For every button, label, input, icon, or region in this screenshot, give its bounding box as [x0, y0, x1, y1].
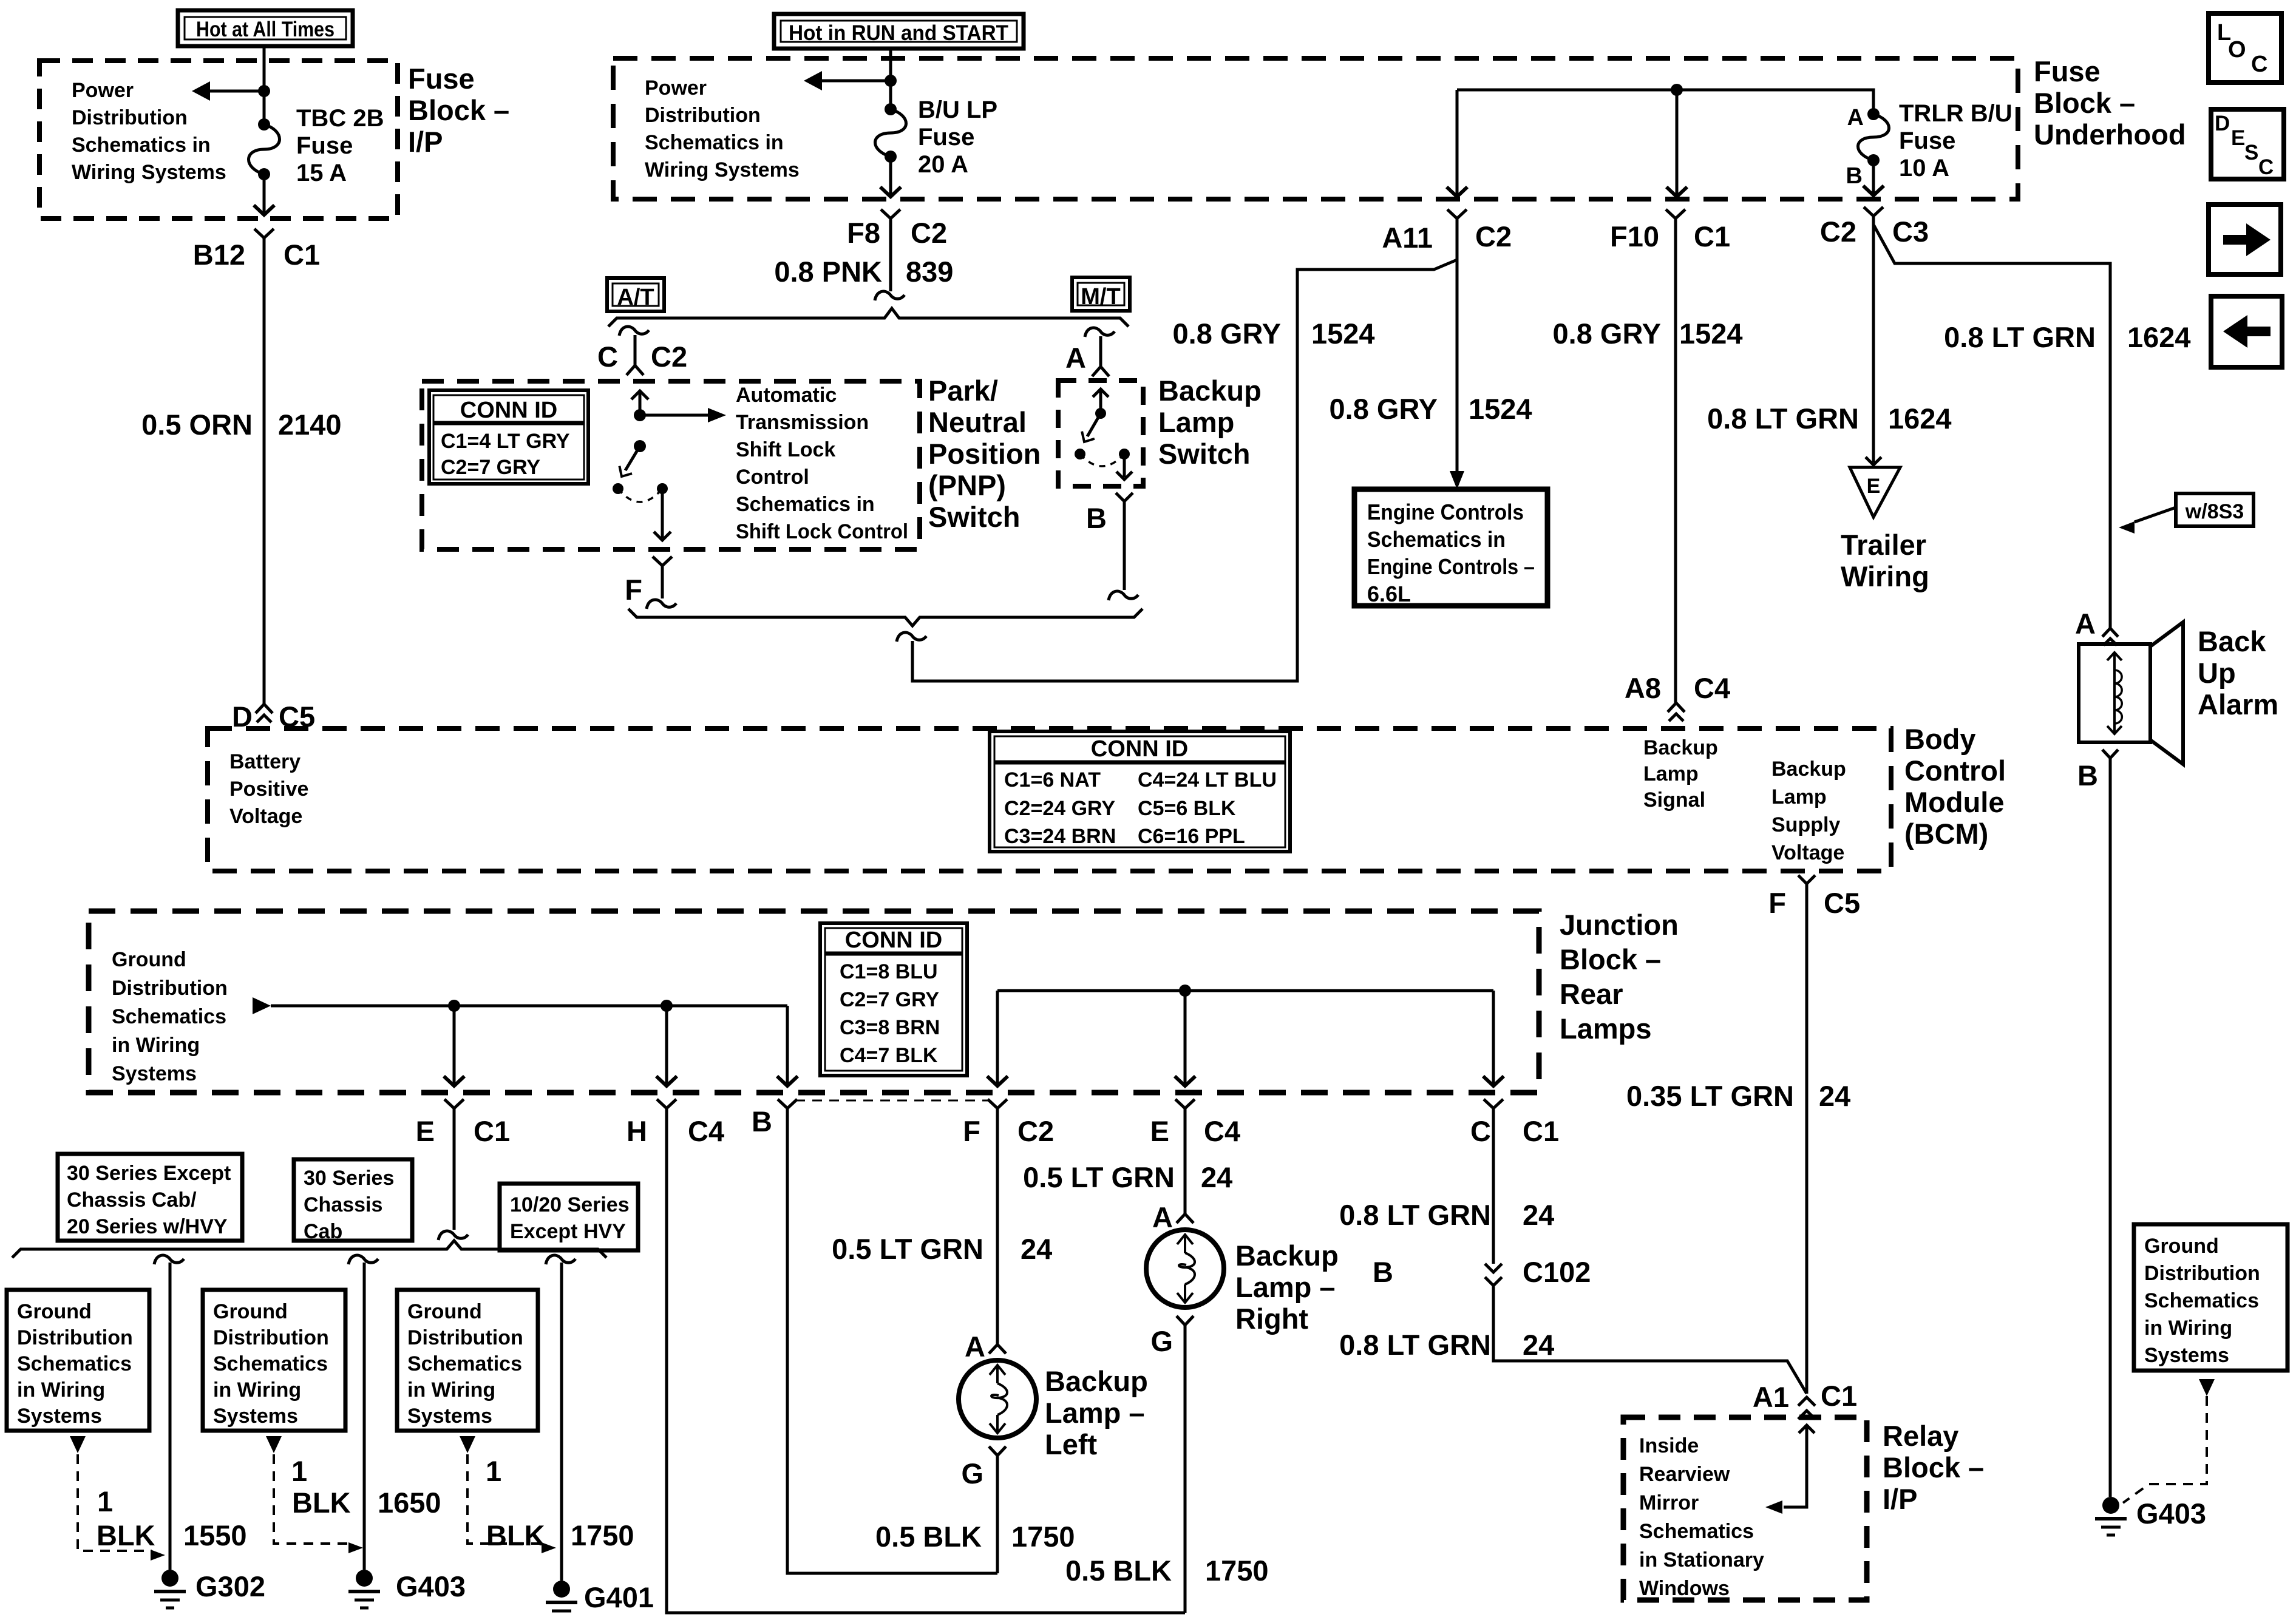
fuse TBC 2B 15A symbol	[258, 118, 270, 131]
svg-text:Systems: Systems	[2144, 1344, 2229, 1367]
svg-text:I/P: I/P	[1883, 1483, 1917, 1515]
svg-text:Back: Back	[2198, 625, 2266, 657]
svg-text:Fuse: Fuse	[1899, 127, 1955, 154]
svg-text:Wiring Systems: Wiring Systems	[72, 161, 226, 184]
back up alarm coil element	[2113, 654, 2116, 732]
connector F8/C2	[881, 209, 900, 219]
harness hook on M/T branch	[1085, 328, 1115, 337]
ground distribution reference box B	[203, 1290, 345, 1431]
svg-text:Neutral: Neutral	[928, 406, 1027, 438]
ground wire hook (G403 mid)	[348, 1255, 378, 1264]
wire E/C1 to ground splice	[453, 1108, 456, 1230]
svg-text:Rear: Rear	[1560, 978, 1623, 1010]
next page arrow icon	[2209, 205, 2281, 274]
svg-text:in Stationary: in Stationary	[1639, 1548, 1764, 1571]
connector B (junction)	[778, 1099, 797, 1108]
svg-text:D: D	[2215, 112, 2230, 135]
M/T variant tag box	[1072, 277, 1130, 311]
svg-text:Lamp: Lamp	[1771, 785, 1827, 808]
branch arrow to power distribution (underhood)	[818, 80, 891, 83]
svg-text:Control: Control	[736, 466, 809, 489]
svg-text:1750: 1750	[571, 1519, 634, 1551]
svg-text:C1: C1	[1523, 1115, 1559, 1147]
ground G302	[161, 1570, 178, 1587]
svg-text:G302: G302	[195, 1570, 265, 1602]
ground bus drop to H/C4	[665, 1006, 668, 1083]
connector A11/C2	[1447, 209, 1467, 219]
wire 0.8 GRY 1524 from A11 to engine controls	[1456, 260, 1459, 472]
svg-text:Fuse: Fuse	[918, 124, 974, 151]
svg-text:B: B	[752, 1105, 772, 1137]
svg-text:0.8 GRY: 0.8 GRY	[1330, 393, 1438, 425]
ground wire hook (G401)	[546, 1255, 576, 1264]
svg-text:Lamps: Lamps	[1560, 1012, 1652, 1045]
svg-text:0.8 PNK: 0.8 PNK	[774, 256, 882, 288]
svg-text:Fuse: Fuse	[2034, 55, 2101, 87]
reference pointer triangle A	[70, 1436, 86, 1453]
fuse block internal bus wire	[1457, 90, 1873, 114]
svg-text:C1=8 BLU: C1=8 BLU	[840, 960, 938, 983]
svg-text:Power: Power	[72, 79, 134, 102]
svg-text:1624: 1624	[1888, 402, 1952, 435]
svg-text:1550: 1550	[183, 1519, 247, 1551]
wire 0.35 LT GRN 24 from BCM to relay block	[1805, 884, 1809, 1394]
svg-text:24: 24	[1201, 1161, 1232, 1193]
A/T variant tag box	[607, 278, 664, 311]
svg-text:Backup: Backup	[1045, 1365, 1148, 1397]
svg-text:(PNP): (PNP)	[928, 469, 1006, 501]
svg-text:Fuse: Fuse	[296, 132, 353, 159]
connector E/C1 (junction)	[444, 1099, 464, 1108]
svg-text:Systems: Systems	[112, 1062, 197, 1085]
svg-text:C4: C4	[1694, 672, 1730, 704]
svg-text:Systems: Systems	[17, 1405, 102, 1428]
svg-text:Position: Position	[928, 438, 1041, 470]
relay block dashed outline	[1623, 1417, 1867, 1600]
connector B of back up alarm	[2102, 750, 2118, 758]
connector G of right backup lamp	[1177, 1316, 1194, 1325]
svg-text:Distribution: Distribution	[407, 1326, 523, 1349]
svg-text:Voltage: Voltage	[229, 805, 302, 828]
backup lamp switch throw arc	[1080, 454, 1124, 466]
svg-text:C1=4 LT GRY: C1=4 LT GRY	[441, 430, 570, 453]
svg-text:G403: G403	[396, 1570, 466, 1602]
svg-text:Engine Controls –: Engine Controls –	[1367, 554, 1535, 579]
svg-text:Lamp: Lamp	[1643, 762, 1699, 785]
svg-text:Schematics in: Schematics in	[72, 134, 211, 157]
svg-text:Hot in RUN and START: Hot in RUN and START	[789, 21, 1008, 45]
svg-text:in Wiring: in Wiring	[112, 1034, 200, 1057]
svg-text:Schematics in: Schematics in	[1367, 527, 1506, 552]
svg-text:Positive: Positive	[229, 778, 308, 801]
svg-text:0.8 GRY: 0.8 GRY	[1173, 317, 1282, 350]
svg-text:C102: C102	[1523, 1256, 1591, 1288]
svg-text:C5: C5	[1824, 887, 1860, 919]
DESC page icon	[2211, 109, 2284, 179]
variant box 30 Series Except Chassis Cab / 20 Series w/HVY	[58, 1154, 242, 1241]
svg-text:Body: Body	[1904, 723, 1976, 755]
connector F10/C1	[1666, 209, 1685, 219]
connector A of backup lamp switch	[1099, 336, 1102, 367]
svg-text:C2: C2	[651, 341, 687, 373]
svg-text:C2: C2	[911, 217, 947, 249]
backup lamp switch output to pin B	[1123, 454, 1126, 477]
svg-text:A1: A1	[1753, 1381, 1789, 1413]
svg-text:Supply: Supply	[1771, 813, 1840, 836]
svg-text:w/8S3: w/8S3	[2185, 500, 2244, 523]
svg-text:Schematics in: Schematics in	[736, 493, 875, 516]
connector F/C5 below BCM	[1798, 875, 1815, 884]
svg-text:Schematics: Schematics	[17, 1352, 132, 1375]
svg-text:Backup: Backup	[1158, 375, 1262, 407]
PNP output wire to pin F	[661, 489, 664, 538]
bus junction node at F10 drop	[1671, 84, 1683, 96]
wire 0.8 PNK 839	[889, 219, 892, 291]
svg-text:0.5 LT GRN: 0.5 LT GRN	[832, 1233, 983, 1265]
svg-text:F8: F8	[847, 217, 880, 249]
svg-text:15 A: 15 A	[296, 160, 347, 186]
svg-text:Windows: Windows	[1639, 1577, 1730, 1600]
relay block internal wire with arrows	[1799, 1425, 1815, 1433]
connector B of backup lamp switch	[1116, 493, 1133, 501]
svg-text:1524: 1524	[1469, 393, 1532, 425]
PNP switch throw arc	[618, 489, 662, 502]
svg-text:Junction: Junction	[1560, 909, 1679, 941]
svg-text:Chassis Cab/: Chassis Cab/	[67, 1188, 197, 1212]
ground G403 (right)	[2102, 1497, 2119, 1514]
node junction on feed wire	[258, 85, 270, 97]
svg-text:1624: 1624	[2127, 321, 2191, 353]
svg-text:Distribution: Distribution	[72, 106, 188, 129]
svg-text:10/20 Series: 10/20 Series	[510, 1193, 630, 1216]
svg-text:G: G	[961, 1457, 983, 1490]
svg-text:in Wiring: in Wiring	[213, 1378, 301, 1402]
svg-text:E: E	[1150, 1115, 1169, 1147]
svg-text:Backup: Backup	[1643, 736, 1718, 759]
svg-text:C4: C4	[1204, 1115, 1240, 1147]
connector B12/C1 below fuse block	[254, 229, 274, 238]
CONN ID table for junction block	[820, 923, 967, 1076]
backup lamp switch input pin arrow	[1093, 389, 1109, 397]
trailer wiring destination triangle E	[1850, 467, 1900, 517]
svg-text:A8: A8	[1625, 672, 1661, 704]
power feed label box: Hot at All Times	[178, 10, 353, 46]
wire from Hot in RUN into fuse block	[889, 49, 892, 109]
node junction on RUN feed	[885, 75, 897, 87]
connector C/C1 (junction)	[1484, 1099, 1503, 1108]
svg-text:10 A: 10 A	[1899, 155, 1949, 181]
svg-text:TRLR B/U: TRLR B/U	[1899, 100, 2012, 127]
ground wire 1 BLK 1750	[560, 1263, 563, 1581]
svg-text:CONN ID: CONN ID	[845, 927, 942, 953]
ground wire hook (G302)	[154, 1255, 184, 1264]
svg-text:A/T: A/T	[617, 285, 654, 310]
branch arrow to power distribution	[206, 90, 264, 93]
PNP switch throw contacts	[613, 483, 623, 494]
svg-text:24: 24	[1523, 1199, 1554, 1231]
svg-text:B12: B12	[193, 239, 245, 271]
back up alarm body	[2079, 644, 2150, 742]
ground splice brace	[12, 1241, 606, 1258]
connector A of left backup lamp	[989, 1344, 1006, 1354]
svg-text:I/P: I/P	[408, 126, 443, 158]
svg-text:30 Series: 30 Series	[304, 1167, 394, 1190]
svg-text:G: G	[1150, 1325, 1173, 1357]
svg-text:Park/: Park/	[928, 375, 998, 407]
svg-text:Up: Up	[2198, 657, 2236, 689]
svg-text:20 A: 20 A	[918, 151, 968, 178]
svg-text:Block –: Block –	[1560, 943, 1661, 975]
ground bus node E drop	[448, 1000, 460, 1012]
harness hook below merge brace	[897, 632, 926, 642]
connector F of PNP switch	[653, 557, 672, 566]
svg-text:0.8 LT GRN: 0.8 LT GRN	[1339, 1199, 1491, 1231]
PNP switch dashed outline	[422, 381, 920, 549]
dashed reference path A	[78, 1454, 152, 1551]
lamp bus drop to E/C4	[1184, 991, 1187, 1083]
svg-text:CONN ID: CONN ID	[460, 398, 557, 423]
svg-text:CONN ID: CONN ID	[1091, 736, 1188, 762]
svg-text:Ground: Ground	[17, 1300, 92, 1323]
wire E/C4 to right backup lamp	[1184, 1108, 1187, 1214]
svg-text:Distribution: Distribution	[645, 104, 761, 127]
ground distribution reference box A	[7, 1290, 149, 1431]
svg-text:TBC 2B: TBC 2B	[296, 105, 384, 132]
ground bus drop to B	[786, 1006, 789, 1083]
svg-text:C4: C4	[688, 1115, 724, 1147]
svg-text:Systems: Systems	[213, 1405, 298, 1428]
connector C/C2 of PNP switch	[634, 335, 637, 365]
svg-text:C4=7 BLK: C4=7 BLK	[840, 1044, 938, 1067]
dashed reference path to G403	[2123, 1396, 2207, 1503]
CONN ID table for PNP switch	[429, 390, 588, 484]
svg-text:Lamp: Lamp	[1158, 406, 1234, 438]
svg-text:Automatic: Automatic	[736, 384, 837, 407]
CONN ID table for BCM	[990, 731, 1290, 852]
svg-text:C2=7 GRY: C2=7 GRY	[840, 988, 939, 1011]
svg-text:A: A	[1065, 342, 1086, 374]
svg-text:1524: 1524	[1679, 317, 1743, 350]
svg-text:Wiring Systems: Wiring Systems	[645, 158, 800, 181]
svg-text:C3: C3	[1892, 215, 1929, 248]
svg-text:0.5 ORN: 0.5 ORN	[141, 408, 253, 441]
svg-text:C1: C1	[474, 1115, 510, 1147]
svg-text:Shift Lock: Shift Lock	[736, 438, 835, 461]
svg-text:Ground: Ground	[213, 1300, 288, 1323]
svg-text:Schematics: Schematics	[112, 1005, 226, 1028]
reference pointer triangle C	[460, 1436, 475, 1453]
svg-text:B: B	[1373, 1256, 1393, 1288]
backup lamp - left bulb	[959, 1360, 1036, 1438]
svg-text:Voltage: Voltage	[1771, 841, 1844, 864]
backup lamp switch dashed outline	[1058, 381, 1143, 486]
svg-text:B: B	[2077, 759, 2098, 792]
wire H/C4 to right lamp return	[667, 1108, 1185, 1613]
svg-text:S: S	[2244, 141, 2258, 164]
svg-text:Engine Controls: Engine Controls	[1367, 500, 1524, 524]
svg-text:C3=24 BRN: C3=24 BRN	[1004, 825, 1116, 848]
wire 0.8 LT GRN 1624 to backup alarm	[1873, 225, 2110, 628]
variant box 10/20 Series Except HVY	[500, 1184, 638, 1250]
split brace A/T - M/T	[608, 308, 1129, 327]
PNP common node	[634, 409, 646, 421]
wire F/C2 to left backup lamp	[996, 1108, 999, 1344]
svg-text:30 Series Except: 30 Series Except	[67, 1162, 231, 1185]
w/8S3 option tag box	[2176, 493, 2254, 526]
harness hook on A/T branch	[619, 327, 649, 336]
svg-text:BLK: BLK	[486, 1519, 545, 1551]
svg-text:Switch: Switch	[928, 501, 1020, 533]
svg-text:C2: C2	[1820, 215, 1856, 248]
svg-text:1: 1	[486, 1455, 501, 1487]
wire from fuse to I/P block edge	[263, 174, 266, 214]
wire 0.8 LT GRN 1624 to trailer wiring	[1872, 216, 1875, 463]
svg-text:BLK: BLK	[292, 1486, 351, 1519]
svg-text:Schematics: Schematics	[407, 1352, 522, 1375]
svg-text:0.8 LT GRN: 0.8 LT GRN	[1944, 321, 2096, 353]
svg-text:Backup: Backup	[1771, 758, 1846, 781]
fuse block underhood dashed outline	[613, 58, 2018, 199]
ground G403 (middle)	[356, 1570, 373, 1587]
svg-text:Relay: Relay	[1883, 1420, 1958, 1452]
variant box 30 Series Chassis Cab	[294, 1159, 412, 1241]
svg-text:C3=8 BRN: C3=8 BRN	[840, 1016, 940, 1039]
bus drop to F10 with arrow	[1676, 90, 1679, 194]
svg-text:1: 1	[291, 1455, 307, 1487]
svg-text:B: B	[1086, 502, 1107, 534]
svg-text:Inside: Inside	[1639, 1434, 1699, 1457]
svg-text:Schematics in: Schematics in	[645, 131, 784, 154]
body control module dashed outline	[208, 728, 1891, 871]
wire C/C1 down to C102	[1492, 1108, 1495, 1264]
svg-text:Schematics: Schematics	[1639, 1520, 1754, 1543]
svg-text:0.35 LT GRN: 0.35 LT GRN	[1626, 1080, 1794, 1112]
connector H/C4 (junction)	[657, 1099, 676, 1108]
svg-text:Ground: Ground	[112, 948, 186, 971]
svg-text:C1: C1	[1821, 1380, 1857, 1412]
svg-text:Signal: Signal	[1643, 788, 1705, 812]
svg-text:G403: G403	[2136, 1497, 2206, 1530]
backup lamp - right bulb	[1146, 1230, 1224, 1307]
svg-text:C2=24 GRY: C2=24 GRY	[1004, 797, 1115, 820]
connector G of left backup lamp	[989, 1446, 1006, 1456]
svg-text:Block –: Block –	[408, 94, 509, 126]
svg-text:F10: F10	[1610, 220, 1659, 253]
svg-text:O: O	[2228, 37, 2246, 63]
lamp feed bus wire	[997, 989, 1493, 992]
svg-text:1750: 1750	[1011, 1520, 1075, 1553]
svg-text:Except HVY: Except HVY	[510, 1220, 626, 1243]
alarm ground wire to G403	[2109, 758, 2112, 1497]
wire B to left lamp return	[787, 1108, 997, 1573]
svg-text:BLK: BLK	[97, 1519, 155, 1551]
svg-text:C2=7 GRY: C2=7 GRY	[441, 456, 540, 479]
svg-text:C: C	[597, 341, 618, 373]
wire TRLR fuse to block edge	[1872, 160, 1875, 193]
wire from Hot at All Times into fuse block	[263, 46, 266, 124]
svg-text:C: C	[2258, 155, 2274, 179]
svg-text:Module: Module	[1904, 786, 2004, 818]
svg-text:Rearview: Rearview	[1639, 1463, 1730, 1486]
svg-text:1750: 1750	[1205, 1554, 1269, 1587]
previous page arrow icon	[2211, 296, 2282, 367]
ground bus branch arrow	[253, 997, 271, 1014]
svg-text:C2: C2	[1017, 1115, 1054, 1147]
svg-text:in Wiring: in Wiring	[2144, 1317, 2232, 1340]
ground wire 1 BLK 1650	[363, 1263, 366, 1570]
bus drop to A11 with arrow	[1456, 90, 1459, 194]
svg-text:Switch: Switch	[1158, 438, 1250, 470]
svg-text:Block –: Block –	[2034, 87, 2135, 119]
svg-text:24: 24	[1819, 1080, 1850, 1112]
dashed reference path B	[274, 1454, 351, 1544]
svg-text:Control: Control	[1904, 754, 2006, 787]
branch arrow to shift lock control	[640, 414, 709, 417]
reference pointer triangle (right)	[2199, 1379, 2215, 1396]
svg-text:0.5 LT GRN: 0.5 LT GRN	[1023, 1161, 1175, 1193]
svg-text:1524: 1524	[1311, 317, 1375, 350]
svg-text:24: 24	[1021, 1233, 1052, 1265]
svg-text:6.6L: 6.6L	[1367, 581, 1411, 606]
svg-text:M/T: M/T	[1081, 284, 1120, 310]
connector D/C5 at BCM	[256, 704, 273, 713]
svg-text:1650: 1650	[378, 1486, 441, 1519]
wire 0.8 LT GRN 24 to relay block	[1493, 1286, 1807, 1394]
svg-text:A: A	[1847, 105, 1864, 131]
svg-text:E: E	[2231, 126, 2245, 150]
harness tie line between B and F	[795, 1100, 990, 1102]
wire 0.5 ORN 2140 down to BCM	[263, 238, 266, 704]
fuse TRLR B/U 10A symbol	[1867, 108, 1880, 120]
svg-text:Hot at All Times: Hot at All Times	[196, 18, 335, 41]
svg-text:C1=6 NAT: C1=6 NAT	[1004, 768, 1101, 792]
svg-text:Shift Lock Control: Shift Lock Control	[736, 520, 908, 543]
svg-text:C2: C2	[1475, 220, 1512, 253]
svg-text:in Wiring: in Wiring	[17, 1378, 105, 1402]
PNP switch movable contact	[634, 440, 646, 452]
svg-text:Fuse: Fuse	[408, 63, 475, 95]
svg-text:Lamp –: Lamp –	[1045, 1397, 1145, 1429]
connector A1/C1 at relay block	[1798, 1397, 1815, 1406]
svg-text:Ground: Ground	[407, 1300, 482, 1323]
svg-text:1: 1	[97, 1485, 113, 1517]
svg-text:F: F	[963, 1115, 980, 1147]
svg-text:C4=24 LT BLU: C4=24 LT BLU	[1138, 768, 1277, 792]
ground G401	[553, 1581, 570, 1598]
svg-text:Left: Left	[1045, 1428, 1098, 1460]
svg-text:E: E	[416, 1115, 435, 1147]
harness hook at 839 wire end	[875, 291, 905, 300]
power feed label box: Hot in RUN and START	[774, 14, 1024, 49]
fuse block I/P dashed outline	[39, 61, 398, 219]
junction block dashed outline	[89, 911, 1539, 1093]
svg-text:C1: C1	[284, 239, 320, 271]
connector A of right backup lamp	[1177, 1214, 1194, 1223]
svg-text:Backup: Backup	[1235, 1239, 1339, 1272]
svg-text:E: E	[1867, 475, 1881, 498]
svg-text:Chassis: Chassis	[304, 1193, 382, 1216]
svg-text:Schematics: Schematics	[2144, 1289, 2259, 1312]
connector A of back up alarm	[2102, 628, 2118, 637]
wire from merge brace to connector A11	[912, 260, 1457, 681]
svg-text:Systems: Systems	[407, 1405, 492, 1428]
svg-text:F: F	[625, 574, 642, 606]
connector C2/C3	[1864, 207, 1883, 216]
LOC page icon	[2209, 13, 2281, 83]
svg-text:839: 839	[906, 256, 953, 288]
svg-text:G401: G401	[584, 1581, 654, 1613]
wire 0.8 GRY 1524 from F10 to BCM A8	[1674, 219, 1677, 703]
